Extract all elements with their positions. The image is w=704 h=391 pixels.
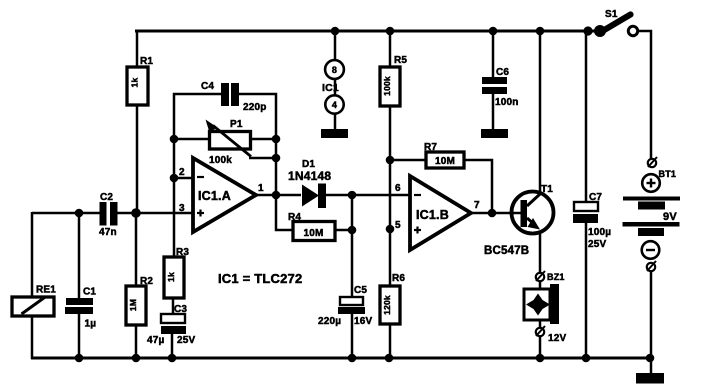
capacitor C4 [201, 81, 267, 113]
junction P1 wiper [272, 154, 281, 163]
junction IC1.B output node [488, 209, 497, 218]
junction top rail S1 [583, 26, 592, 35]
potentiometer P1 [206, 119, 252, 166]
svg-text:25V: 25V [177, 335, 196, 346]
svg-text:C6: C6 [496, 67, 509, 78]
wire C1 bottom [78, 314, 81, 358]
wire IC1 pin 8 [334, 30, 337, 61]
wire IC1 pin 4 to ground [334, 114, 337, 130]
svg-text:120k: 120k [382, 295, 392, 315]
svg-text:10M: 10M [435, 156, 455, 167]
svg-text:R6: R6 [392, 273, 405, 284]
switch S1 [594, 9, 638, 37]
battery BT1 [623, 157, 681, 271]
wire P1 left [174, 138, 210, 141]
op-amp IC1.B [395, 176, 480, 250]
wire S1 to battery [636, 31, 651, 159]
capacitor C5 [318, 285, 373, 327]
svg-text:R5: R5 [394, 55, 407, 66]
wire C7 bottom [585, 222, 588, 358]
wire R2 top [135, 213, 138, 286]
wire R7 left [390, 159, 426, 162]
svg-text:100n: 100n [495, 97, 519, 108]
wire P1 right [250, 138, 276, 141]
svg-text:C3: C3 [174, 304, 187, 315]
resistor R2 [126, 276, 153, 325]
resistor R7 [424, 142, 464, 168]
svg-text:S1: S1 [605, 9, 618, 20]
resistor R4 [288, 212, 335, 241]
capacitor C7 [573, 192, 611, 250]
svg-text:16V: 16V [354, 316, 373, 327]
svg-text:IC1.B: IC1.B [416, 208, 449, 222]
wire top supply rail [135, 30, 600, 33]
svg-text:3: 3 [179, 203, 185, 214]
svg-text:R7: R7 [424, 142, 437, 153]
junction top rail IC1 supply [331, 27, 340, 36]
svg-text:IC1: IC1 [322, 82, 339, 94]
svg-text:IC1.A: IC1.A [198, 189, 231, 203]
junction pin 5 node [386, 225, 395, 234]
svg-text:1k: 1k [130, 78, 140, 88]
junction ground rail R2 [132, 354, 141, 363]
junction R1 R2 input node [131, 208, 141, 218]
svg-text:1k: 1k [166, 272, 176, 282]
wire R5 top [389, 30, 392, 67]
svg-text:C1: C1 [83, 287, 96, 298]
junction ground rail C3 [168, 354, 177, 363]
svg-text:BC547B: BC547B [484, 245, 529, 257]
wire RE1 top [31, 212, 34, 297]
wire IC1 pin 8 to pin 4 [334, 79, 337, 96]
wire C4 left / pin2 / R3 column [174, 94, 221, 257]
svg-text:220p: 220p [243, 102, 267, 113]
svg-text:220µ: 220µ [318, 316, 341, 327]
junction R7 left node [386, 156, 395, 165]
op-amp IC1.A [179, 158, 264, 232]
svg-text:9V: 9V [663, 211, 677, 223]
wire IC1.A output to D1 anode [254, 194, 301, 197]
svg-text:R2: R2 [140, 276, 153, 287]
svg-text:7: 7 [474, 200, 480, 211]
resistor R3 [164, 247, 189, 298]
svg-text:R4: R4 [288, 212, 301, 223]
svg-text:C4: C4 [201, 81, 214, 92]
transistor T1 [484, 184, 554, 257]
junction ground rail buzzer [536, 354, 545, 363]
capacitor C1 [65, 287, 96, 330]
junction P1 right [272, 135, 281, 144]
wire C3 to ground rail [171, 332, 174, 358]
IC1 supply pin 4 [325, 95, 343, 113]
wire input node to C2 [32, 212, 104, 215]
svg-text:T1: T1 [541, 184, 553, 195]
junction ground rail C5 [348, 354, 357, 363]
wire R1 bottom [136, 105, 139, 214]
junction D1 cathode node [348, 191, 357, 200]
wire IC1.B output to T1 base [470, 212, 513, 215]
relay RE1 [12, 285, 56, 317]
ground IC1 pin 4 [321, 129, 348, 138]
svg-text:BZ1: BZ1 [547, 272, 565, 282]
capacitor C2 [99, 192, 118, 238]
wire R5 to R6 column [389, 106, 392, 286]
svg-text:6: 6 [395, 183, 401, 194]
svg-text:BT1: BT1 [659, 169, 677, 179]
wire R6 bottom [389, 324, 392, 358]
wire T1 collector [539, 30, 542, 194]
svg-text:100k: 100k [209, 155, 232, 166]
wire C7 top [585, 31, 588, 202]
junction ground rail battery [646, 354, 655, 363]
svg-text:C2: C2 [100, 192, 113, 203]
wire C6 top [492, 30, 495, 78]
wire RE1 bottom [31, 315, 34, 359]
junction C1 top node [75, 209, 84, 218]
wire R3 to C3 [172, 298, 175, 314]
IC1 supply pin 8 [325, 60, 344, 79]
resistor R1 [127, 56, 153, 105]
wire R7 right down to output [464, 160, 492, 213]
junction P1 left [170, 135, 179, 144]
svg-text:2: 2 [179, 167, 185, 178]
svg-text:R3: R3 [176, 247, 189, 258]
ground battery [636, 373, 664, 384]
wire pin 2 stub [174, 177, 194, 180]
svg-text:1M: 1M [128, 299, 138, 311]
buzzer BZ1 [524, 271, 567, 344]
svg-text:IC1 = TLC272: IC1 = TLC272 [218, 271, 302, 286]
svg-text:C5: C5 [354, 285, 367, 296]
junction ground rail C1 [75, 354, 84, 363]
junction R4 C5 node [348, 226, 357, 235]
resistor R6 [380, 273, 405, 324]
junction ground rail R6 [385, 354, 394, 363]
svg-text:10M: 10M [303, 228, 323, 239]
svg-text:100k: 100k [382, 76, 392, 96]
svg-text:25V: 25V [588, 239, 607, 250]
capacitor C6 [482, 67, 519, 108]
wire C6 to ground [492, 94, 495, 130]
wire C4 right feedback column to R4 [238, 94, 293, 230]
wire battery ground stub [650, 358, 653, 374]
junction top rail T1 collector [536, 27, 545, 36]
svg-text:1N4148: 1N4148 [288, 169, 331, 183]
svg-text:1: 1 [258, 183, 264, 194]
wire C2 to pin 3 [116, 212, 194, 215]
resistor R5 [380, 55, 407, 106]
capacitor C3 [147, 304, 196, 346]
junction IC1.A output node [272, 191, 281, 200]
svg-text:P1: P1 [230, 119, 243, 130]
junction top rail C6 [489, 27, 498, 36]
wire bottom ground rail [31, 357, 652, 360]
svg-text:C7: C7 [589, 192, 602, 203]
svg-text:8: 8 [332, 65, 337, 75]
wire buzzer bottom [539, 337, 542, 358]
svg-text:R1: R1 [140, 56, 153, 67]
junction top rail R5 [386, 27, 395, 36]
svg-text:100µ: 100µ [588, 227, 611, 238]
svg-text:12V: 12V [548, 333, 567, 344]
wire R1 top [136, 30, 139, 67]
junction ground rail C7 [582, 354, 591, 363]
svg-text:5: 5 [395, 220, 401, 231]
wire C5 bottom [351, 312, 354, 358]
wire C5 column top [351, 195, 354, 297]
wire T1 emitter to buzzer [539, 232, 542, 273]
wire battery to ground rail [650, 270, 653, 358]
wire D1 cathode to pin 6 [326, 194, 411, 197]
svg-text:47µ: 47µ [147, 335, 165, 346]
svg-text:RE1: RE1 [36, 285, 56, 296]
wire C1 top [78, 213, 81, 299]
ground C6 [481, 129, 508, 138]
wire P1 wiper join [249, 157, 276, 160]
svg-text:1µ: 1µ [85, 319, 97, 330]
svg-text:47n: 47n [99, 227, 117, 238]
diode D1 [288, 159, 331, 208]
wire R2 bottom [135, 325, 138, 358]
svg-text:4: 4 [332, 100, 337, 110]
junction pin 2 node [170, 174, 179, 183]
wire R4 right [334, 229, 352, 232]
